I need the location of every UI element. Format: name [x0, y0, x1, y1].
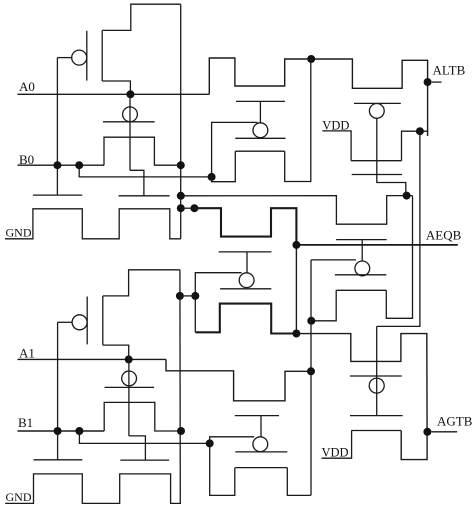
svg-text:AGTB: AGTB — [437, 414, 473, 429]
node B0 branch dot — [75, 161, 83, 169]
transistor Q17 bubble — [253, 437, 268, 452]
node AGTB output dot — [423, 428, 431, 436]
transistor Q16 gate bar (NMOS lower middle) — [235, 415, 279, 417]
transistor Q9 gate bar (NMOS mid-left pair) — [219, 251, 272, 253]
transistor Q5 gate bar (NMOS, B0 gate) — [33, 194, 82, 196]
wire Q12 left source lead — [311, 290, 336, 321]
transistor Q14 channel backbone — [102, 296, 104, 345]
wire bold XNOR chain upper — [194, 208, 296, 245]
node A dot on spine — [177, 192, 185, 200]
transistor Q2 bubble (PMOS, A0 gate) — [123, 107, 138, 122]
wire Q14 drain top lead — [103, 270, 180, 296]
node plateau dot — [307, 55, 315, 63]
wire VDD lower lead — [322, 431, 352, 459]
svg-text:GND: GND — [6, 490, 32, 504]
wire Q17 left source lead — [210, 443, 235, 495]
transistor Q19 gate bar (NMOS, A1 gate) — [120, 459, 169, 461]
wire VDD-dot drop to AGTB gate stem — [377, 131, 420, 326]
wire AEQB output line — [296, 244, 457, 246]
node B1 x Q14-gate dot — [54, 427, 62, 435]
wire A1 gate stem through Q15 — [128, 359, 130, 436]
wire jog to Q19 gate — [129, 436, 146, 460]
transistor Q4 gate bar (PMOS) — [235, 137, 285, 139]
wire AEQB node drop — [295, 246, 297, 334]
node gate-net dot3 — [307, 367, 315, 375]
transistor Q13 gate bar (PMOS AGTB) — [350, 415, 403, 417]
wire B1 spine to Q14/Q18 gates — [57, 322, 59, 460]
svg-text:AEQB: AEQB — [426, 228, 462, 243]
wire Q17 right drain lead — [287, 468, 311, 496]
transistor Q13 channel backbone — [351, 430, 401, 432]
wire B0 input line — [18, 164, 105, 166]
wire AGTB stub — [432, 431, 458, 433]
ground rail GND upper — [5, 209, 181, 239]
node B0 x Q1-gate dot — [53, 161, 61, 169]
node B1 x spine dot — [177, 427, 185, 435]
transistor Q11 gate bar (NMOS AEQB) — [336, 239, 387, 241]
node gate-net dot2 — [307, 317, 315, 325]
node C dot — [190, 204, 198, 212]
wire A0 square-wave to ALTB branch — [209, 58, 427, 136]
node bold-chain dot1 — [292, 330, 300, 338]
node drain junction dot — [403, 192, 411, 200]
node lower mid rail dot — [206, 439, 214, 447]
transistor Q3 gate bar (NMOS upper middle) — [236, 100, 285, 102]
transistor Q15 bubble (PMOS, A1 gate) — [122, 371, 137, 386]
transistor Q10 gate bar (PMOS) — [220, 288, 271, 290]
node AEQB dot — [292, 241, 300, 249]
wire B1 rise over Q15 backbone — [104, 402, 181, 431]
transistor Q8 gate bar (NMOS, ALTB branch) — [354, 102, 401, 104]
transistor Q4 channel backbone — [235, 150, 284, 152]
svg-text:ALTB: ALTB — [433, 63, 466, 78]
transistor Q1 channel backbone — [101, 30, 103, 81]
wire Q9/Q10 gate stem — [246, 252, 248, 273]
wire jog to Q6 gate — [130, 170, 144, 196]
transistor Q7 gate bar — [352, 174, 402, 176]
wire B0 spine to Q1/Q5 gates — [56, 58, 58, 196]
wire Q4 left source lead — [212, 151, 236, 182]
wire Q1 source bottom lead to A0 — [102, 81, 130, 94]
wire bold Q10 backbone loop — [195, 304, 296, 334]
wire A0 gate stem through Q2 — [129, 94, 131, 170]
wire A1 square-wave to gate net — [166, 359, 311, 400]
wire VDD upper lead — [322, 131, 351, 161]
transistor Q10 bubble — [239, 273, 254, 288]
transistor Q1 gate bar (PMOS top-left, B0 gate) — [86, 31, 88, 81]
wire A0 input line — [18, 93, 210, 95]
transistor Q12 channel backbone — [336, 289, 386, 291]
wire B0 drop to mid rail — [79, 165, 211, 177]
wire node-B to node-C link — [181, 207, 195, 209]
transistor Q13a gate bar (NMOS AGTB) — [350, 375, 402, 377]
wire gate net vertical x311 — [310, 260, 312, 496]
wire Q3/Q4 shared gate stem — [259, 101, 261, 122]
svg-text:GND: GND — [6, 226, 32, 240]
wire drain leg down right side — [386, 196, 412, 319]
node B1 branch dot — [75, 427, 83, 435]
wire B0 rise over Q2 backbone — [104, 137, 181, 165]
wire chain to AGTB — [296, 334, 427, 460]
transistor Q15 gate bar — [105, 386, 155, 388]
node VDD-line dot — [416, 127, 424, 135]
node ALTB output dot — [424, 78, 432, 86]
transistor Q12 bubble — [355, 261, 370, 276]
wire B1 input line — [18, 430, 105, 432]
node B0 x spine dot — [177, 161, 185, 169]
transistor Q1 bubble — [72, 50, 87, 65]
ground rail GND lower — [5, 474, 181, 504]
transistor Q8 bubble — [369, 104, 384, 119]
wire vertical spine x180 upper — [180, 4, 182, 239]
svg-text:VDD: VDD — [322, 446, 349, 460]
wire AGTB pair gate stem — [376, 326, 378, 415]
wire Q16/Q17 gate stem — [260, 416, 262, 438]
svg-text:A1: A1 — [19, 346, 35, 361]
wire gate feed to Q3/Q4 bubble — [212, 122, 258, 176]
wire Q11/Q12 gate feed — [311, 259, 356, 261]
transistor Q7 channel backbone (PMOS at VDD) — [351, 160, 401, 162]
wire ALTB stub — [432, 81, 442, 83]
wire Q11/Q12 gate stem — [361, 240, 363, 262]
transistor Q13 bubble (PMOS AGTB) — [369, 378, 384, 393]
wire Q14 source bottom lead to A1 — [103, 345, 129, 359]
node A1 junction dot — [125, 355, 133, 363]
wire gate feed from node E — [195, 273, 241, 296]
wire Q1 drain top lead — [102, 4, 181, 30]
wire node-D to node-E link — [180, 295, 195, 297]
wire node-A rail to XNOR leg — [181, 196, 413, 225]
transistor Q18 gate bar (NMOS, B1 gate) — [34, 459, 83, 461]
transistor Q4 bubble — [253, 123, 268, 138]
wire Q1 gate lead — [57, 57, 71, 59]
transistor Q6 gate bar (NMOS, A0 gate) — [119, 195, 170, 197]
transistor Q12 gate bar (PMOS) — [335, 274, 386, 276]
wire B1 drop to lower mid rail — [79, 431, 209, 443]
node B dot on spine — [177, 204, 185, 212]
svg-text:VDD: VDD — [322, 119, 349, 133]
wire node E drop — [194, 296, 196, 332]
node mid rail dot — [208, 173, 216, 181]
wire Q7 drain riser — [402, 131, 428, 161]
wire vertical spine x180 lower — [179, 270, 181, 504]
node E dot — [191, 292, 199, 300]
transistor Q2 gate bar — [103, 121, 155, 123]
wire A1 input line — [18, 358, 167, 360]
wire Q14 gate lead — [58, 321, 73, 323]
node D dot on lower spine — [176, 292, 184, 300]
transistor Q17 channel backbone — [235, 467, 287, 469]
node A0 junction dot — [126, 90, 134, 98]
transistor Q17 gate bar (PMOS) — [235, 451, 287, 453]
svg-text:B1: B1 — [18, 415, 33, 430]
transistor Q14 bubble — [72, 315, 87, 330]
svg-text:B0: B0 — [19, 152, 34, 167]
wire Q8 gate stem to drain node — [377, 118, 406, 195]
wire Q4 right drain arch — [285, 59, 311, 182]
wire gate feed to Q16/Q17 bubble — [210, 437, 255, 444]
svg-text:A0: A0 — [19, 79, 35, 94]
transistor Q14 gate bar (PMOS lower-left, B1 gate) — [86, 297, 88, 345]
